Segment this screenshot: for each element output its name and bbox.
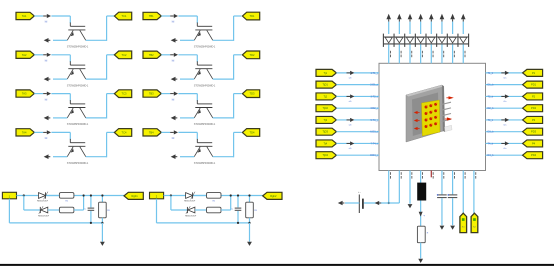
IGBT Q7 <box>194 100 213 118</box>
From tag TA3 (IGBT cell 3 gate input) <box>16 90 34 97</box>
resistor R2 <box>59 207 74 213</box>
Goto tag PD1 (module right output 2) <box>523 81 543 88</box>
anti-parallel diode array rails (top) <box>383 34 468 47</box>
signal arrow right row 1 <box>501 71 509 80</box>
wire arrow-diode pin 5 <box>430 22 432 34</box>
svg-text:Tj1: Tj1 <box>323 71 327 75</box>
svg-text:Tj2: Tj2 <box>323 94 327 98</box>
ground pin 4 column <box>418 259 423 263</box>
pin number label top 5 <box>432 51 435 57</box>
collector output wire cell 8 <box>213 132 242 157</box>
svg-text:TjD1: TjD1 <box>323 83 329 87</box>
wire right output 8 <box>486 154 523 156</box>
wire gate input cell 2 <box>34 54 43 56</box>
pin number label bottom 3 <box>410 172 413 178</box>
Goto tag TC3 (IGBT cell 3 output) <box>114 90 131 98</box>
module terminals right <box>442 102 452 121</box>
From tag TB1 (IGBT cell 5 gate input) <box>143 12 161 19</box>
capacitor C1 <box>232 196 242 223</box>
wire cap 6 to ground <box>441 198 443 225</box>
svg-text:PD1: PD1 <box>531 83 537 87</box>
svg-text:TA1: TA1 <box>22 14 27 18</box>
wire diode-block pin 2 <box>398 44 400 63</box>
capacitor C1 <box>84 196 94 223</box>
From tag TA2 (IGBT cell 2 gate input) <box>16 51 34 58</box>
svg-text:STGW35HF60WD-1: STGW35HF60WD-1 <box>67 84 89 87</box>
wire bottom pin 9 <box>473 171 475 215</box>
svg-text:C: C <box>232 209 234 211</box>
svg-text:[g]: [g] <box>172 99 175 101</box>
emitter wire cell 4 <box>53 156 67 158</box>
thermal capacitor pin 7 <box>448 194 458 198</box>
wire arrow-diode pin 7 <box>452 22 454 34</box>
resistor R1 <box>207 193 222 203</box>
svg-text:P3: P3 <box>532 118 536 122</box>
svg-text:t2s: t2s <box>504 147 507 150</box>
part number label cell 5 <box>194 46 216 49</box>
Goto tag P4 (module right output 7) <box>523 140 543 147</box>
svg-text:TC3: TC3 <box>122 92 127 96</box>
wire black block to resistor <box>420 201 422 227</box>
wire gate input cell 7 <box>161 93 170 95</box>
wire right output 5 <box>486 119 523 121</box>
vertical Goto tag K2 <box>471 213 478 232</box>
top reference arrow pin 2 <box>397 14 402 22</box>
wire right output 6 <box>486 131 523 133</box>
svg-text:t2s: t2s <box>504 76 507 79</box>
wire arrow-diode pin 4 <box>420 22 422 34</box>
svg-text:STGW35HF60WD-1: STGW35HF60WD-1 <box>194 123 216 126</box>
wire cap 7 to ground <box>452 198 454 225</box>
svg-text:RB520S30F: RB520S30F <box>185 215 197 217</box>
pin label 1:T1_j <box>371 72 378 75</box>
diode D1 (right) <box>39 192 48 200</box>
svg-text:TC4: TC4 <box>122 130 127 134</box>
pin label D4_b <box>488 154 495 157</box>
svg-text:4:D2_j: 4:D2_j <box>370 107 378 110</box>
wire arrow-diode pin 8 <box>462 22 464 34</box>
node R3 bottom <box>101 222 103 224</box>
wire to lower branch <box>171 196 187 211</box>
pin label D2_b <box>488 107 495 110</box>
heat-flow arrows right <box>445 96 454 120</box>
node C1 bottom <box>90 222 92 224</box>
From tag Tj3 (module left input 5) <box>316 116 336 123</box>
Goto tag TD4 (IGBT cell 8 output) <box>242 129 259 137</box>
svg-text:TjD2: TjD2 <box>323 106 329 110</box>
diode D2 (module top) <box>396 37 403 43</box>
wire to collector cell 1 <box>51 16 70 23</box>
wire to lower branch <box>24 196 40 211</box>
wire to collector cell 3 <box>51 94 70 101</box>
wire to collector cell 4 <box>51 132 70 139</box>
collector output wire cell 4 <box>86 132 115 157</box>
IGBT Q3 <box>67 100 86 118</box>
module dies (heat sources) <box>425 103 438 128</box>
svg-text:[g]: [g] <box>172 138 175 140</box>
svg-text:STGW35HF60WD-1: STGW35HF60WD-1 <box>67 46 89 49</box>
signal arrow right row 5 <box>501 118 509 127</box>
svg-text:Tj4: Tj4 <box>323 141 327 145</box>
wire bottom pin 2 to battery rail <box>398 171 400 204</box>
pin label 6:D3_j <box>370 131 378 134</box>
svg-text:TjD3: TjD3 <box>323 130 329 134</box>
wire bottom pin 8 <box>462 171 464 215</box>
From tag TjD2 (module left input 4) <box>316 105 336 112</box>
Goto tag P3 (module right output 5) <box>523 116 543 123</box>
pin number label bottom 5 <box>432 172 435 178</box>
svg-text:TC2: TC2 <box>122 53 127 57</box>
top reference arrow pin 1 <box>386 14 391 22</box>
svg-text:TD4: TD4 <box>250 130 255 134</box>
wire resistor to ground <box>420 243 422 259</box>
top reference arrow pin 6 <box>440 14 445 22</box>
part number label cell 1 <box>67 46 89 49</box>
part number label cell 6 <box>194 84 216 87</box>
svg-text:[g]: [g] <box>45 138 48 140</box>
collector output wire cell 7 <box>213 94 242 119</box>
svg-text:5:T3_j: 5:T3_j <box>371 119 378 122</box>
signal arrow left row 1 <box>347 71 355 80</box>
wire left input 4 <box>336 107 379 109</box>
svg-text:R1: R1 <box>66 200 69 202</box>
wire arrow-diode pin 3 <box>409 22 411 34</box>
wire left input 8 <box>336 154 379 156</box>
pin number label top 7 <box>453 51 456 57</box>
label D1 <box>184 201 196 203</box>
diode D1 (right) <box>186 192 195 200</box>
wire right output 1 <box>486 72 523 74</box>
pin number label bottom 6 <box>442 172 445 178</box>
IGBT Q8 <box>194 139 213 157</box>
signal arrow cell 1 <box>43 14 51 23</box>
pin number label bottom 4 <box>421 172 424 178</box>
wire D1-R1 <box>46 195 59 197</box>
wire D1-R1 <box>194 195 207 197</box>
svg-text:[g]: [g] <box>172 60 175 62</box>
emitter wire cell 8 <box>180 156 194 158</box>
emitter wire cell 5 <box>180 39 194 41</box>
IGBT Q4 <box>67 139 86 157</box>
svg-text:t2s: t2s <box>504 123 507 126</box>
svg-text:TC1: TC1 <box>122 14 127 18</box>
pin label T4_b <box>488 142 494 145</box>
svg-text:TD3: TD3 <box>250 92 255 96</box>
diode D3 (module top) <box>406 37 413 43</box>
pin label 2:D1_j <box>370 84 378 87</box>
wire gate input cell 6 <box>161 54 170 56</box>
svg-text:PD2: PD2 <box>531 106 537 110</box>
IGBT Q2 <box>67 61 86 79</box>
pin label 8:D4_j <box>370 154 378 157</box>
pin number label top 3 <box>410 51 413 57</box>
collector output wire cell 3 <box>86 94 115 119</box>
svg-text:RB520S30F: RB520S30F <box>184 201 196 203</box>
svg-text:s2t: s2t <box>349 76 352 79</box>
wire D2-R2 <box>48 209 60 211</box>
wire feedback rail <box>157 199 250 223</box>
signal arrow cell 6 <box>170 53 178 62</box>
wire D2-R2 <box>195 209 207 211</box>
emitter reference arrow cell 5 <box>171 38 178 43</box>
svg-text:R3: R3 <box>254 210 257 212</box>
IGBT Q6 <box>194 61 213 79</box>
wire left input 5 <box>336 119 379 121</box>
pin label 3:T2_j <box>371 95 378 98</box>
From tag TA4 (IGBT cell 4 gate input) <box>16 129 34 136</box>
Goto tag PD2 (module right output 4) <box>523 105 543 112</box>
pin number label bottom 9 <box>474 172 477 178</box>
node R2/rail <box>230 194 232 196</box>
frame line (figure bottom rule) <box>0 264 554 266</box>
svg-text:T4_b: T4_b <box>488 142 494 145</box>
pin number label top 8 <box>464 51 467 57</box>
wire left input 3 <box>336 95 379 97</box>
wire top rail <box>164 195 263 197</box>
pin label T1_b <box>488 72 494 75</box>
wire bottom pin 4 <box>420 171 422 184</box>
svg-text:STGW35HF60WD-1: STGW35HF60WD-1 <box>67 123 89 126</box>
wire left input 7 <box>336 142 379 144</box>
svg-text:8:D4_j: 8:D4_j <box>370 154 378 157</box>
thermal resistor pin 4 <box>417 226 428 243</box>
pin number label bottom 2 <box>400 172 403 178</box>
emitter reference arrow cell 6 <box>171 77 178 82</box>
top reference arrow pin 5 <box>429 14 434 22</box>
svg-text:STGW35HF60WD-1: STGW35HF60WD-1 <box>194 84 216 87</box>
emitter wire cell 6 <box>180 78 194 80</box>
svg-text:R1: R1 <box>213 200 216 202</box>
Goto tag P2 (module right output 3) <box>523 93 543 100</box>
flow arrow pin 4 <box>419 212 426 217</box>
wire gate input cell 1 <box>34 15 43 17</box>
diode D7 (module top) <box>449 37 456 43</box>
pin number label top 2 <box>400 51 403 57</box>
svg-text:TjD4: TjD4 <box>323 153 329 157</box>
IGBT module thermal block U1 <box>379 63 486 170</box>
top reference arrow pin 4 <box>418 14 423 22</box>
IGBT Q5 <box>194 23 213 41</box>
wire to collector cell 7 <box>178 94 197 101</box>
svg-text:6:D3_j: 6:D3_j <box>370 131 378 134</box>
Goto tag TC2 (IGBT cell 2 output) <box>114 51 131 59</box>
pin number label bottom 8 <box>464 172 467 178</box>
signal arrow cell 3 <box>43 92 51 101</box>
svg-text:PD4: PD4 <box>531 153 537 157</box>
part number label cell 2 <box>67 84 89 87</box>
diode D4 (module top) <box>417 37 424 43</box>
wire to collector cell 8 <box>178 132 197 139</box>
signal arrow right row 3 <box>501 94 509 103</box>
From tag TA1 (IGBT cell 1 gate input) <box>16 12 34 19</box>
svg-text:P4: P4 <box>532 141 536 145</box>
wire feedback rail <box>9 199 102 223</box>
svg-text:Rgb1: Rgb1 <box>131 194 138 198</box>
ground battery (left) <box>338 201 345 206</box>
signal arrow cell 7 <box>170 92 178 101</box>
node battery rail pin1 <box>388 202 390 204</box>
resistor R3 (vertical) <box>246 196 258 223</box>
wire arrow-diode pin 6 <box>441 22 443 34</box>
svg-text:2:D1_j: 2:D1_j <box>370 84 378 87</box>
Goto tag TD1 (IGBT cell 5 output) <box>242 12 259 20</box>
svg-text:s2t: s2t <box>349 123 352 126</box>
wire diode-block pin 7 <box>452 44 454 63</box>
pin label 5:T3_j <box>371 119 378 122</box>
wire diode-block pin 4 <box>420 44 422 63</box>
top reference arrow pin 8 <box>461 14 466 22</box>
part number label cell 3 <box>67 123 89 126</box>
emitter wire cell 7 <box>180 117 194 119</box>
pin number label top 4 <box>421 51 424 57</box>
resistor R1 <box>59 193 74 203</box>
label D2 <box>185 215 197 217</box>
svg-text:P2: P2 <box>532 94 536 98</box>
part number label cell 4 <box>67 162 89 165</box>
wire gate input cell 4 <box>34 131 43 133</box>
module 3D picture <box>406 85 445 142</box>
signal arrow cell 4 <box>43 130 51 139</box>
svg-text:PD3: PD3 <box>531 130 537 134</box>
vertical Goto tag K1 <box>460 213 467 232</box>
svg-text:D2_b: D2_b <box>488 107 495 110</box>
pin label 4:D2_j <box>370 107 378 110</box>
Goto tag Rgb1 (driver output) <box>124 192 143 199</box>
label D2 <box>38 215 50 217</box>
svg-text:STGW35HF60WD-1: STGW35HF60WD-1 <box>67 162 89 165</box>
wire to collector cell 2 <box>51 55 70 62</box>
wire bottom pin 3 <box>409 171 411 204</box>
pin label D1_b <box>488 84 495 87</box>
wire right output 4 <box>486 107 523 109</box>
svg-text:1:T1_j: 1:T1_j <box>371 72 378 75</box>
diode D2 (left) <box>186 206 195 214</box>
wire left input 6 <box>336 131 379 133</box>
svg-text:RB520S30F: RB520S30F <box>38 215 50 217</box>
From tag TB2 (IGBT cell 6 gate input) <box>143 51 161 58</box>
svg-text:s2t: s2t <box>349 100 352 103</box>
svg-text:TB3: TB3 <box>149 92 154 96</box>
node split <box>23 194 25 196</box>
node R2/rail <box>83 194 85 196</box>
wire top rail <box>17 195 125 197</box>
svg-text:TA4: TA4 <box>22 130 27 134</box>
wire bottom pin 7 <box>452 171 454 195</box>
signal arrow left row 5 <box>347 118 355 127</box>
unconnected pin 5 (red) <box>430 171 432 178</box>
emitter reference arrow cell 8 <box>171 154 178 159</box>
collector output wire cell 1 <box>86 16 115 41</box>
svg-text:D1_b: D1_b <box>488 84 495 87</box>
wire diode-block pin 5 <box>430 44 432 63</box>
wire battery left <box>345 202 359 204</box>
wire left input 2 <box>336 84 379 86</box>
emitter wire cell 1 <box>53 39 67 41</box>
From tag TjD4 (module left input 8) <box>316 152 336 159</box>
svg-text:q: q <box>424 215 426 217</box>
svg-text:P1: P1 <box>532 71 536 75</box>
ground pin 7 <box>450 226 455 230</box>
svg-text:t2s: t2s <box>504 100 507 103</box>
diode D2 (left) <box>39 206 48 214</box>
input tag 2 (driver) <box>150 192 164 199</box>
wire right output 7 <box>486 142 523 144</box>
signal arrow left row 3 <box>347 94 355 103</box>
pin number label bottom 7 <box>453 172 456 178</box>
svg-text:+ -: + - <box>358 191 361 194</box>
signal arrow cell 5 <box>170 14 178 23</box>
pin number label top 1 <box>389 51 392 57</box>
wire gate input cell 5 <box>161 15 170 17</box>
svg-text:TB2: TB2 <box>149 53 154 57</box>
Goto tag TC4 (IGBT cell 4 output) <box>114 129 131 137</box>
svg-text:T2_b: T2_b <box>488 95 494 98</box>
diode D6 (module top) <box>438 37 445 43</box>
IGBT Q1 <box>67 23 86 41</box>
svg-text:RB520S30F: RB520S30F <box>37 201 49 203</box>
svg-text:STGW35HF60WD-1: STGW35HF60WD-1 <box>194 46 216 49</box>
svg-text:TD1: TD1 <box>250 14 255 18</box>
From tag TjD1 (module left input 2) <box>316 81 336 88</box>
diode D8 (module top) <box>460 37 467 43</box>
pin label 7:T4_j <box>371 142 378 145</box>
ground pin 6 <box>440 226 445 230</box>
wire left input 1 <box>336 72 379 74</box>
From tag TB4 (IGBT cell 8 gate input) <box>143 129 161 136</box>
diode D5 (module top) <box>428 37 435 43</box>
emitter wire cell 3 <box>53 117 67 119</box>
collector output wire cell 2 <box>86 55 115 80</box>
wire R2 up to rail <box>74 196 84 211</box>
wire gate input cell 8 <box>161 131 170 133</box>
svg-text:TA2: TA2 <box>22 53 27 57</box>
pin label T3_b <box>488 119 494 122</box>
wire bottom pin 6 <box>441 171 443 195</box>
voltage source V1 (ambient temperature) <box>358 191 363 213</box>
top reference arrow pin 3 <box>408 14 413 22</box>
label D1 <box>37 201 49 203</box>
wire arrow-diode pin 1 <box>388 22 390 34</box>
svg-text:TB4: TB4 <box>149 130 154 134</box>
Goto tag TD2 (IGBT cell 6 output) <box>242 51 259 59</box>
input tag 1 (driver) <box>2 192 16 199</box>
collector output wire cell 5 <box>213 16 242 41</box>
signal arrow cell 8 <box>170 130 178 139</box>
signal arrow cell 2 <box>43 53 51 62</box>
thermal capacitor pin 6 <box>437 194 447 198</box>
thermal block (black) pin 4 <box>417 183 426 201</box>
resistor R2 <box>207 207 222 213</box>
Goto tag Rgb2 (driver output) <box>263 192 282 199</box>
Goto tag P1 (module right output 1) <box>523 69 543 76</box>
wire diode-block pin 3 <box>409 44 411 63</box>
svg-text:Rgb2: Rgb2 <box>270 194 277 198</box>
heat-flow arrows left <box>414 111 420 130</box>
top reference arrow pin 7 <box>450 14 455 22</box>
wire R2 up to rail <box>221 196 231 211</box>
wire diode-block pin 1 <box>388 44 390 63</box>
diode D1 (module top) <box>385 37 392 43</box>
node C1 top <box>237 194 239 196</box>
rail flow arrow <box>375 201 382 205</box>
svg-text:STGW35HF60WD-1: STGW35HF60WD-1 <box>194 162 216 165</box>
resistor R3 (vertical) <box>99 196 111 223</box>
ground pin 3 <box>408 204 413 208</box>
emitter reference arrow cell 7 <box>171 116 178 121</box>
svg-text:C: C <box>84 209 86 211</box>
pin label D3_b <box>488 131 495 134</box>
Goto tag PD4 (module right output 8) <box>523 152 543 159</box>
